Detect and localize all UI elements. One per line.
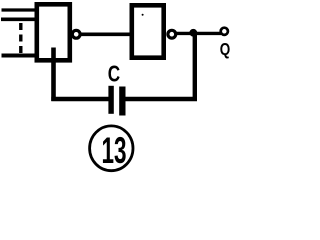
wire feedback vertical right <box>193 33 197 101</box>
capacitor C plate 1 <box>108 86 113 114</box>
input wire 2 <box>1 17 36 21</box>
gate U1 (inverter block) <box>37 4 70 60</box>
wire U1 output to U2 input <box>81 32 132 36</box>
wire feedback bottom left segment <box>51 97 110 101</box>
svg-text:Q: Q <box>220 40 231 59</box>
gate U2 (inverter block) <box>132 5 164 57</box>
wire U1 bottom pin down <box>51 48 56 102</box>
figure number circle <box>90 126 133 171</box>
junction node <box>189 29 197 37</box>
input wire 3 <box>2 54 37 58</box>
wire feedback bottom right segment <box>125 97 198 101</box>
capacitor C plate 2 <box>119 87 125 116</box>
dashed ellipsis line between inputs <box>19 23 22 54</box>
U2 output inversion bubble <box>168 30 176 38</box>
output terminal circle <box>221 28 228 35</box>
U1 output inversion bubble <box>72 30 80 38</box>
speck inside U2 <box>142 14 144 16</box>
wire U2 output to terminal <box>177 32 222 35</box>
svg-text:13: 13 <box>102 129 127 171</box>
svg-text:C: C <box>108 61 121 87</box>
input wire 1 <box>2 8 37 11</box>
